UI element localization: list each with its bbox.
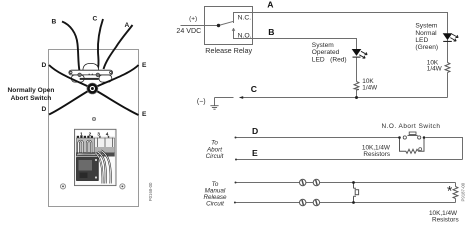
wire D to E (upper-left to lower-right) <box>49 65 139 115</box>
svg-text:C: C <box>93 16 98 23</box>
wire loop 2 <box>87 141 91 153</box>
abort switch symbol <box>403 136 406 139</box>
svg-text:P9187-00: P9187-00 <box>461 182 466 201</box>
svg-text:A: A <box>267 0 273 10</box>
svg-text:N.C.: N.C. <box>238 14 252 21</box>
wire A <box>253 13 448 42</box>
right resistor vertical <box>455 183 457 203</box>
dark band <box>76 153 115 157</box>
svg-text:A: A <box>125 22 130 29</box>
mounting hole right <box>120 184 125 189</box>
left foot lobe <box>71 75 84 82</box>
svg-text:E: E <box>252 148 258 158</box>
svg-text:Resistors: Resistors <box>432 216 459 223</box>
mid connector <box>354 183 357 203</box>
left ear hole <box>70 71 72 73</box>
svg-text:B: B <box>268 27 274 37</box>
serrated strip <box>80 78 99 80</box>
svg-text:Release Relay: Release Relay <box>205 46 252 55</box>
terminal screws <box>78 73 82 77</box>
svg-text:D: D <box>42 62 47 69</box>
wire bundle <box>98 152 106 184</box>
svg-text:P0168-00: P0168-00 <box>148 182 153 201</box>
line start dots <box>235 137 237 139</box>
svg-text:1/4W: 1/4W <box>427 66 443 73</box>
svg-text:Circuit: Circuit <box>206 201 224 208</box>
svg-text:System: System <box>415 23 437 30</box>
center hole <box>92 117 95 120</box>
mounting hole left <box>60 184 65 189</box>
manual release bottom line <box>235 202 456 204</box>
To Manual Release Circuit label <box>203 181 227 208</box>
manual release top line <box>236 182 456 184</box>
abort switch plate <box>49 50 139 207</box>
switch bracket assembly <box>69 63 113 82</box>
wire C <box>241 97 448 99</box>
terminal block <box>75 129 117 185</box>
svg-text:Circuit: Circuit <box>206 153 224 160</box>
svg-text:LED: LED <box>415 37 428 44</box>
svg-text:C: C <box>251 84 257 94</box>
svg-text:*: * <box>447 183 453 198</box>
wire loop 1 <box>79 141 83 153</box>
bold net labels <box>251 0 275 158</box>
terminal slots <box>77 138 95 153</box>
svg-text:24 VDC: 24 VDC <box>176 27 201 35</box>
wire B <box>253 39 357 50</box>
red resistor <box>354 82 359 91</box>
right foot lobe <box>99 75 112 82</box>
green resistor <box>445 63 450 73</box>
C line arrowhead <box>239 96 243 99</box>
svg-text:B: B <box>52 19 57 26</box>
red LED <box>352 49 362 56</box>
wire D <box>236 138 463 160</box>
mid connector junction dots <box>352 181 355 184</box>
crimp connector circles <box>300 179 320 205</box>
svg-text:System: System <box>312 42 334 49</box>
dome button <box>83 63 99 70</box>
svg-text:(−): (−) <box>197 98 206 105</box>
svg-text:E: E <box>142 62 147 69</box>
green LED <box>443 33 453 40</box>
input wire <box>181 25 219 27</box>
ground symbol <box>210 106 218 110</box>
svg-text:LED (Red): LED (Red) <box>312 56 347 63</box>
svg-text:Normal: Normal <box>415 30 437 37</box>
lower white area <box>76 157 115 185</box>
svg-text:Operated: Operated <box>312 49 340 56</box>
bracket bar <box>69 70 113 75</box>
To Abort Circuit label <box>206 140 224 160</box>
junction dot red led / C <box>355 96 358 99</box>
svg-text:D: D <box>42 106 47 113</box>
svg-text:Abort Switch: Abort Switch <box>11 95 52 102</box>
svg-text:(+): (+) <box>189 16 197 23</box>
wire C <box>98 19 104 70</box>
relay common junction dot <box>217 24 220 27</box>
svg-text:(Green): (Green) <box>415 44 438 51</box>
svg-text:E: E <box>142 111 147 118</box>
wire E <box>236 159 463 161</box>
ground stub <box>215 98 234 106</box>
clamp marks under numbers <box>77 136 79 138</box>
release relay box <box>205 7 253 45</box>
svg-text:Normally Open: Normally Open <box>8 87 55 94</box>
wire A <box>104 25 133 69</box>
svg-text:N.O.: N.O. <box>238 33 252 40</box>
svg-text:N.O. Abort Switch: N.O. Abort Switch <box>382 123 441 130</box>
N.O. contact arrow <box>232 28 235 31</box>
svg-text:1/4W: 1/4W <box>362 84 378 91</box>
red led lower wire <box>356 58 358 98</box>
bushing <box>87 83 98 94</box>
microswitch body <box>77 158 99 181</box>
wire E to D (upper-right to lower-left) <box>49 65 139 115</box>
svg-text:Resistors: Resistors <box>363 151 390 158</box>
svg-text:D: D <box>252 126 258 136</box>
green led lower wire <box>447 42 449 98</box>
wire B <box>62 22 80 72</box>
relay arm <box>219 21 234 25</box>
contact box <box>234 13 253 39</box>
right ear hole <box>110 71 112 73</box>
abort parallel resistor loop <box>400 138 425 154</box>
